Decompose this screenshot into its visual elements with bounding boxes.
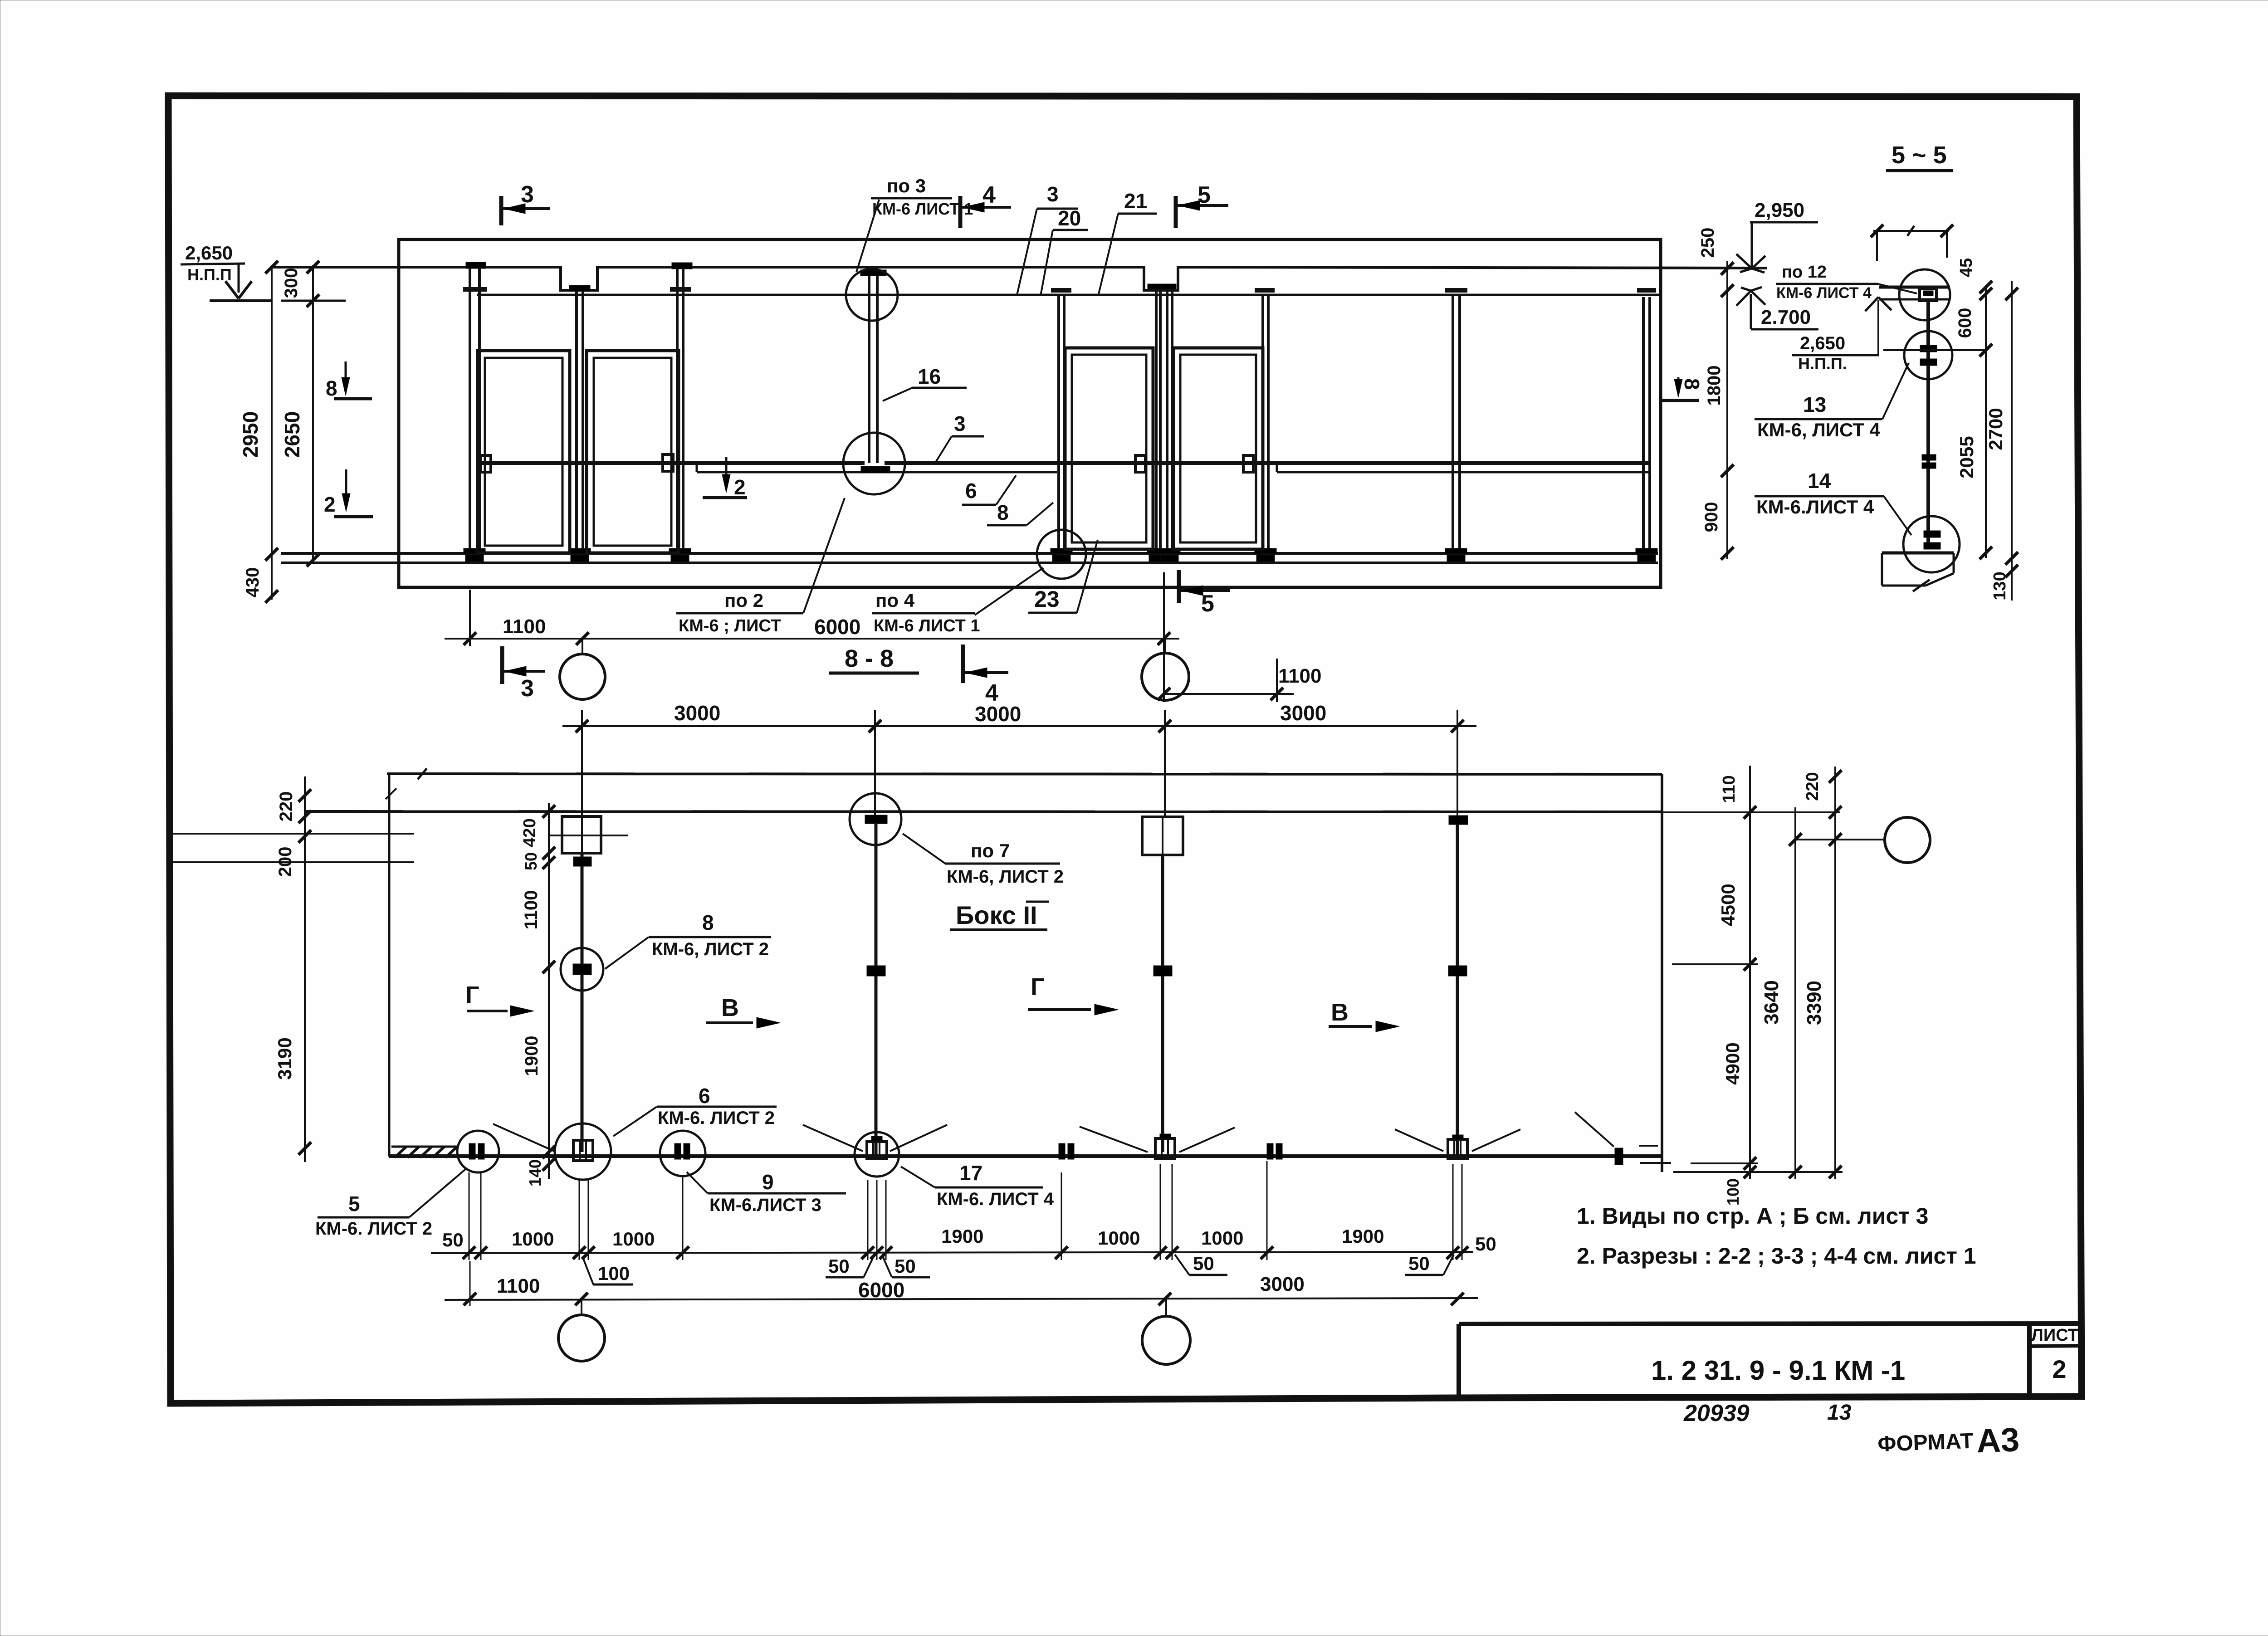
axis circle elevation 1 <box>560 654 605 699</box>
svg-text:420: 420 <box>520 818 539 847</box>
svg-text:13: 13 <box>1827 1401 1852 1425</box>
post A (column 8) <box>470 268 479 553</box>
5-5 bottom joint circle <box>1903 516 1960 572</box>
door 3 <box>1065 348 1153 549</box>
grid 4 tee post <box>1449 816 1468 825</box>
svg-text:8: 8 <box>702 911 714 934</box>
svg-text:Бокс II: Бокс II <box>956 901 1037 929</box>
svg-text:по 3: по 3 <box>887 175 926 196</box>
post E <box>1059 294 1064 553</box>
svg-text:КМ-6. ЛИСТ 4: КМ-6. ЛИСТ 4 <box>937 1189 1054 1209</box>
svg-text:110: 110 <box>1720 775 1739 803</box>
svg-text:3190: 3190 <box>274 1037 295 1079</box>
plan axis circle 2 <box>1142 1316 1190 1364</box>
post G <box>1263 294 1268 553</box>
svg-text:14: 14 <box>1808 469 1831 493</box>
post C <box>677 269 683 553</box>
section marker 3 top <box>499 196 503 225</box>
svg-text:КМ-6, ЛИСТ 2: КМ-6, ЛИСТ 2 <box>652 939 769 959</box>
svg-text:3: 3 <box>954 412 966 435</box>
svg-text:1100: 1100 <box>503 615 546 638</box>
svg-text:1. 2 31. 9 - 9.1 КМ -1: 1. 2 31. 9 - 9.1 КМ -1 <box>1651 1355 1905 1386</box>
post base plates <box>464 548 485 554</box>
svg-text:1000: 1000 <box>612 1228 655 1250</box>
svg-text:2,950: 2,950 <box>1755 199 1804 221</box>
svg-text:100: 100 <box>598 1263 630 1284</box>
svg-text:3000: 3000 <box>975 702 1021 726</box>
svg-text:1800: 1800 <box>1704 366 1724 406</box>
detail circle post E base <box>1037 530 1086 579</box>
svg-text:2,650: 2,650 <box>185 242 233 264</box>
top chord level line 2650 with notches <box>270 267 1767 290</box>
plan bottom wall <box>389 1154 1662 1158</box>
svg-text:50: 50 <box>894 1255 916 1277</box>
svg-text:2700: 2700 <box>1985 408 2006 450</box>
ФОРМАТ А3 stamp <box>1877 1421 2020 1463</box>
5-5 top beam <box>1879 286 1950 289</box>
svg-text:КМ-6 ЛИСТ 1: КМ-6 ЛИСТ 1 <box>872 200 973 218</box>
detail circle top of post D <box>846 269 898 321</box>
elevation left dimension lines <box>271 265 273 600</box>
svg-text:5: 5 <box>348 1192 360 1216</box>
svg-text:13: 13 <box>1803 393 1826 416</box>
5-5 base <box>1882 552 1954 555</box>
plan bottom dim row 2 <box>445 1298 1478 1300</box>
wall stud pairs <box>469 1143 475 1159</box>
right 1100 dim <box>1164 693 1294 695</box>
elevation outer rectangle <box>399 239 1661 587</box>
plan end wall right <box>1639 1145 1658 1147</box>
end wall stud <box>1615 1148 1623 1165</box>
5-5 post <box>1926 301 1930 543</box>
svg-text:45: 45 <box>1957 258 1976 277</box>
svg-text:КМ-6.ЛИСТ 4: КМ-6.ЛИСТ 4 <box>1756 496 1874 518</box>
grid4 bottom joint <box>1448 1139 1467 1158</box>
svg-text:130: 130 <box>1990 571 2009 600</box>
mid rail line 3 <box>479 461 865 465</box>
svg-text:1100: 1100 <box>1278 665 1321 687</box>
svg-text:Н.П.П: Н.П.П <box>187 265 232 284</box>
svg-text:2: 2 <box>2052 1355 2066 1383</box>
section marker 5 bottom <box>1177 570 1181 603</box>
svg-text:В: В <box>1331 999 1349 1026</box>
svg-text:1. Виды по стр. А ; Б см.: 1. Виды по стр. А ; Б см. лист 3 <box>1577 1203 1928 1229</box>
svg-text:250: 250 <box>1698 228 1718 258</box>
adjacent wall lines left <box>170 833 414 835</box>
svg-text:300: 300 <box>281 268 301 298</box>
title block <box>1459 1323 2082 1324</box>
svg-text:КМ-6 ; ЛИСТ: КМ-6 ; ЛИСТ <box>679 616 781 635</box>
svg-text:140: 140 <box>526 1159 544 1187</box>
detail circle C1 <box>457 1131 499 1172</box>
elevation bottom dimension line <box>445 638 1179 640</box>
section marker 5 top <box>1174 196 1178 228</box>
plan left wall edge <box>386 788 396 799</box>
post I <box>1643 297 1650 553</box>
grid 3 partition <box>1161 855 1164 1152</box>
svg-text:9: 9 <box>762 1170 774 1194</box>
5-5 dim line 2055 <box>1985 285 1987 558</box>
svg-text:по 2: по 2 <box>724 590 763 611</box>
svg-text:600: 600 <box>1955 308 1975 338</box>
svg-text:21: 21 <box>1124 189 1147 213</box>
plan second wall line <box>305 811 1662 812</box>
svg-text:430: 430 <box>243 567 263 598</box>
svg-text:1000: 1000 <box>1201 1227 1243 1249</box>
svg-text:по 4: по 4 <box>875 590 915 611</box>
svg-text:6: 6 <box>699 1084 710 1108</box>
svg-text:20939: 20939 <box>1683 1400 1750 1426</box>
detail circle bottom of post D <box>843 433 905 494</box>
svg-text:4500: 4500 <box>1717 884 1739 926</box>
svg-text:200: 200 <box>275 847 295 877</box>
post D mullion 16 <box>869 274 877 463</box>
5-5 top dimension <box>1873 230 1949 232</box>
section marker 4 top <box>958 196 963 228</box>
5-5 dim line 2700 <box>2011 281 2013 601</box>
svg-text:Н.П.П.: Н.П.П. <box>1798 354 1847 373</box>
svg-text:КМ-6. ЛИСТ 2: КМ-6. ЛИСТ 2 <box>315 1219 432 1239</box>
svg-text:2055: 2055 <box>1956 436 1977 478</box>
post F1 <box>1156 289 1160 553</box>
svg-text:2,650: 2,650 <box>1800 333 1845 353</box>
svg-text:100: 100 <box>1724 1178 1742 1206</box>
svg-text:3: 3 <box>521 181 534 208</box>
svg-text:3: 3 <box>1047 182 1059 206</box>
svg-text:1100: 1100 <box>521 890 541 930</box>
svg-text:220: 220 <box>276 791 296 822</box>
svg-text:3640: 3640 <box>1760 980 1783 1025</box>
section marker 3 bottom <box>500 646 504 684</box>
plan left dim line 420/50/1100/1900/140 <box>548 803 550 1179</box>
plan bottom dim row 1 <box>431 1252 1473 1253</box>
svg-text:по 7: по 7 <box>971 840 1010 861</box>
elevation right dimension line <box>1726 261 1728 559</box>
svg-text:1100: 1100 <box>497 1275 540 1297</box>
plan right dim line 110/4500/4900/100 <box>1749 766 1751 1179</box>
svg-text:50: 50 <box>442 1229 464 1250</box>
svg-text:50: 50 <box>522 852 540 870</box>
grid extension stubs <box>581 710 583 816</box>
plan left dim line 220/200/3190 <box>304 776 306 1162</box>
right extension lines <box>1662 811 1840 813</box>
post H <box>1453 294 1460 553</box>
grid 3 square column <box>1142 817 1183 855</box>
svg-text:3: 3 <box>521 675 534 702</box>
svg-text:ЛИСТ: ЛИСТ <box>2031 1326 2078 1345</box>
section marker 4 bottom <box>961 645 965 683</box>
svg-text:50: 50 <box>1408 1253 1430 1274</box>
post B (mullion) <box>577 290 583 553</box>
svg-text:50: 50 <box>1193 1253 1214 1274</box>
svg-text:КМ-6 ЛИСТ 1: КМ-6 ЛИСТ 1 <box>874 616 980 635</box>
svg-text:3000: 3000 <box>1280 701 1326 725</box>
svg-text:900: 900 <box>1701 502 1721 532</box>
svg-text:2: 2 <box>324 493 336 516</box>
svg-text:1900: 1900 <box>522 1036 542 1076</box>
door 4 <box>1173 348 1263 549</box>
svg-text:50: 50 <box>1475 1233 1496 1255</box>
svg-text:8: 8 <box>997 501 1009 524</box>
svg-text:6000: 6000 <box>858 1278 904 1302</box>
svg-text:220: 220 <box>1803 772 1822 801</box>
plan right dim line 3390/220 <box>1834 767 1836 1179</box>
svg-text:3000: 3000 <box>674 701 720 725</box>
extension verticals to row1 <box>469 1172 470 1260</box>
5-5 mid bolts <box>1920 345 1937 352</box>
post F2 <box>1167 289 1172 553</box>
transom line <box>477 294 1661 296</box>
plan right axis circle <box>1885 817 1930 863</box>
grid 2 tee post <box>865 815 887 824</box>
svg-text:5: 5 <box>1201 591 1214 617</box>
svg-text:Г: Г <box>465 982 479 1009</box>
5-5 lower bolts <box>1922 454 1936 460</box>
detail circle on grid1 partition <box>561 948 603 991</box>
sheet frame <box>168 96 2082 1403</box>
svg-text:КМ-6.ЛИСТ 3: КМ-6.ЛИСТ 3 <box>709 1195 821 1215</box>
lower rail line 6 <box>697 471 1057 474</box>
grid3 bottom joint <box>1155 1138 1175 1158</box>
svg-text:3000: 3000 <box>1260 1273 1305 1295</box>
svg-text:20: 20 <box>1058 206 1081 230</box>
svg-text:8: 8 <box>1680 378 1704 390</box>
svg-text:17: 17 <box>959 1161 982 1185</box>
plan top dimension line 3000x3 <box>562 725 1476 727</box>
svg-text:23: 23 <box>1034 586 1060 612</box>
svg-text:КМ-6, ЛИСТ 4: КМ-6, ЛИСТ 4 <box>1757 419 1881 440</box>
svg-text:ФОРМАТ: ФОРМАТ <box>1877 1429 1974 1456</box>
svg-text:5: 5 <box>1198 182 1211 208</box>
plan top wall line <box>387 774 1662 774</box>
floor line upper <box>281 552 1658 555</box>
grid1 bottom joint <box>555 1123 611 1180</box>
svg-text:2: 2 <box>734 475 746 499</box>
plan axis circle 1 <box>558 1315 605 1361</box>
svg-text:6000: 6000 <box>814 615 860 639</box>
svg-text:1900: 1900 <box>1342 1226 1384 1247</box>
svg-text:В: В <box>721 994 739 1021</box>
svg-text:1000: 1000 <box>1098 1227 1140 1249</box>
view marker 8 right <box>1680 378 1704 390</box>
svg-text:КМ-6. ЛИСТ 2: КМ-6. ЛИСТ 2 <box>658 1108 775 1128</box>
5-5 joint extension line <box>1883 349 1986 351</box>
svg-text:6: 6 <box>965 479 977 503</box>
svg-text:16: 16 <box>918 365 941 388</box>
svg-text:КМ-6, ЛИСТ 2: КМ-6, ЛИСТ 2 <box>947 867 1064 887</box>
svg-text:2. Разрезы : 2-2 ; 3-3 ; 4-: 2. Разрезы : 2-2 ; 3-3 ; 4-4 см. лист 1 <box>1577 1243 1976 1269</box>
partition collars <box>573 964 591 975</box>
grid 1 partition <box>581 853 584 1152</box>
grid 2 top joint circle <box>850 793 901 845</box>
svg-text:8 - 8: 8 - 8 <box>845 645 894 672</box>
door 1 <box>478 351 570 553</box>
hatched wall segment <box>391 1146 457 1148</box>
grid2 bottom joint <box>855 1132 899 1177</box>
swing diagonals <box>493 1124 555 1152</box>
plan right dim line 3640 <box>1794 807 1796 1179</box>
svg-text:по 12: по 12 <box>1782 263 1827 282</box>
axis circle elevation 2 <box>1142 653 1189 700</box>
floor line lower <box>281 562 1658 564</box>
svg-text:2650: 2650 <box>280 411 304 458</box>
5-5 middle joint circle <box>1904 331 1952 379</box>
svg-text:1000: 1000 <box>512 1228 554 1250</box>
svg-text:КМ-6 ЛИСТ 4: КМ-6 ЛИСТ 4 <box>1776 284 1872 302</box>
door 2 <box>587 351 679 553</box>
5-5 bolted nub <box>1920 289 1936 301</box>
5-5 top joint circle <box>1899 269 1950 320</box>
detail circle C3 <box>660 1131 705 1176</box>
svg-text:4: 4 <box>982 182 996 208</box>
svg-text:5 ~ 5: 5 ~ 5 <box>1892 142 1947 169</box>
svg-text:А3: А3 <box>1976 1421 2020 1460</box>
grid 1 square column <box>562 816 601 853</box>
svg-text:1900: 1900 <box>941 1226 983 1247</box>
rail splice blob under post D <box>861 466 890 473</box>
svg-text:Г: Г <box>1031 973 1045 1001</box>
svg-text:3390: 3390 <box>1803 981 1825 1025</box>
svg-text:2950: 2950 <box>239 411 262 458</box>
svg-text:4900: 4900 <box>1722 1042 1743 1084</box>
svg-text:50: 50 <box>828 1255 850 1277</box>
svg-text:2.700: 2.700 <box>1761 306 1811 328</box>
svg-text:8: 8 <box>326 376 337 400</box>
